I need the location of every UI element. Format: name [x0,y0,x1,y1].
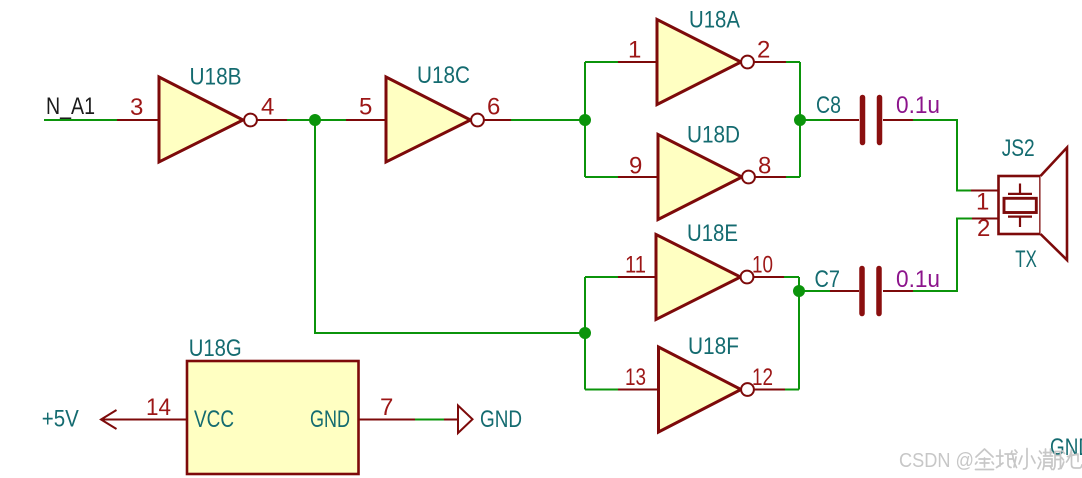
pin 1 of U18A [618,61,657,63]
body box [999,176,1041,234]
wire lower split vertical [584,277,586,390]
svg-text:U18C: U18C [417,62,470,89]
pin 1 of JS2 [971,190,999,192]
svg-text:4: 4 [261,94,274,121]
ground symbol [458,406,473,434]
pin 12 of U18F [754,389,785,391]
svg-text:VCC: VCC [194,406,234,433]
pin 13 of U18F [618,389,659,391]
pin 11 of U18E [618,276,656,278]
char chao [1038,449,1061,470]
svg-text:2: 2 [977,215,990,242]
junction E [793,285,805,297]
wire lower outputs merge vertical [798,277,800,390]
pin 2 of C8 [883,119,913,121]
wire to U18F input [585,389,620,391]
inverter U18E [656,235,753,320]
char chi [1061,450,1082,469]
svg-text:0.1u: 0.1u [896,92,940,119]
svg-text:N_A1: N_A1 [46,93,95,120]
svg-text:CSDN @: CSDN @ [899,450,974,472]
inverter U18C [386,77,484,162]
char xiao [1019,449,1035,470]
capacitor C8 [863,98,880,143]
inverter U18B [159,77,257,162]
pin 14 of U18G [103,419,187,421]
inverter U18F [659,347,754,432]
svg-text:6: 6 [487,94,500,121]
wire U18B out to U18C [287,119,346,121]
svg-text:TX: TX [1015,246,1037,273]
buzzer JS2 [971,148,1067,261]
pin 9 of U18D [618,176,658,178]
pin 4 of U18B [257,119,287,121]
svg-text:2: 2 [757,37,770,64]
cone [1041,148,1068,261]
svg-text:8: 8 [758,153,771,180]
power unit U18G [187,361,359,474]
svg-text:5: 5 [359,94,372,121]
svg-text:7: 7 [380,394,393,421]
inverter U18A [657,20,754,105]
svg-text:0.1u: 0.1u [896,266,940,293]
pin 5 of U18C [346,119,386,121]
svg-text:U18A: U18A [689,6,740,33]
wire U18C out to upper split [511,119,585,121]
pin 3 of U18B [117,119,159,121]
wire junction A down and across to lower split [315,120,585,333]
svg-text:11: 11 [625,252,646,279]
wire upper outputs merge vertical [799,62,801,177]
svg-text:10: 10 [752,252,773,279]
crystal element [1019,184,1021,194]
wire U18A out [786,61,800,63]
pin 2 of JS2 [971,218,999,220]
svg-text:U18B: U18B [190,64,242,91]
pin 1 of C7 [830,290,859,292]
wire U18E out [784,276,799,278]
inverter U18D [658,135,755,220]
svg-text:3: 3 [130,94,143,121]
wire U18F out [785,389,799,391]
char cheng [997,450,1018,468]
svg-text:U18G: U18G [189,335,242,362]
pin 2 of C7 [883,290,913,292]
char jin [976,449,994,470]
svg-text:12: 12 [752,364,773,391]
svg-text:+5V: +5V [42,406,79,433]
svg-text:1: 1 [976,189,989,216]
watermark CJK glyph strokes [976,449,1082,470]
svg-text:14: 14 [146,394,171,421]
svg-text:9: 9 [629,153,642,180]
svg-text:C8: C8 [816,92,841,119]
svg-text:C7: C7 [815,266,841,293]
junction B [579,114,591,126]
pin 8 of U18D [755,176,786,178]
svg-text:1: 1 [628,37,641,64]
wire C7 to JS2 pin2 [913,219,972,292]
svg-text:13: 13 [625,364,646,391]
wire upper split vertical [584,62,586,177]
pin 1 of C8 [830,119,859,121]
junction A [309,114,321,126]
wire C8 to JS2 pin1 [913,120,972,191]
svg-text:U18E: U18E [687,220,738,247]
pin 10 of U18E [753,276,784,278]
wire N_A1 to U18B [44,119,117,121]
pin 6 of U18C [484,119,511,121]
capacitor C7 [862,269,879,314]
ground lead [444,419,458,421]
wire junction E to C7 [799,290,830,292]
svg-text:U18D: U18D [687,122,740,149]
wire to U18D input [585,176,620,178]
junction D [579,327,591,339]
svg-text:GND: GND [480,406,522,433]
wire pin7 to GND [415,419,444,421]
wire to U18A input [585,61,620,63]
wire junction C to C8 [800,119,830,121]
wire U18D out [786,176,800,178]
watermark CSDN [899,450,974,472]
svg-text:GND: GND [310,406,350,433]
pin 7 of U18G [359,419,416,421]
pin 2 of U18A [754,61,786,63]
svg-text:U18F: U18F [688,333,739,360]
junction C [794,114,806,126]
wire to U18E input [585,276,620,278]
power symbol +5V arrow [101,410,117,429]
svg-text:JS2: JS2 [1002,135,1035,162]
